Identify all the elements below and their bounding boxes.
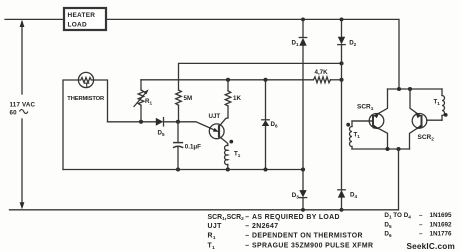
svg-text:–: – xyxy=(419,231,423,238)
wire rail y80 right of 4.7K to D2 line xyxy=(331,79,342,81)
node 1K top on rail y80 xyxy=(226,78,230,82)
transformer T1 secondary for SCR2 gate xyxy=(442,89,445,120)
wire emitter rail from thermistor to R1 node xyxy=(108,121,156,123)
svg-text:UJT: UJT xyxy=(209,113,221,120)
svg-text:1N1695: 1N1695 xyxy=(430,212,453,219)
wire SCR cathode rail y149 xyxy=(352,148,410,150)
diode D3 xyxy=(299,190,306,198)
resistor R1 variable xyxy=(134,80,149,122)
gate lead xyxy=(352,120,373,122)
node bottom wire to D3 xyxy=(301,208,305,212)
svg-text:T1: T1 xyxy=(208,243,216,250)
svg-text:–: – xyxy=(419,212,423,219)
svg-text:D6: D6 xyxy=(384,231,392,238)
text labels xyxy=(10,12,96,117)
heater load box xyxy=(64,8,106,30)
svg-text:–: – xyxy=(245,214,249,221)
node bottom wire to D4 xyxy=(340,208,344,212)
resistor 5M xyxy=(176,90,182,122)
svg-text:THERMISTOR: THERMISTOR xyxy=(67,96,105,102)
svg-text:T1: T1 xyxy=(234,151,241,159)
svg-text:D2: D2 xyxy=(349,40,356,48)
wire D1/D3 vertical line xyxy=(302,19,304,209)
wire SCR anode rail y89 xyxy=(388,88,443,90)
wire bottom AC line xyxy=(10,209,399,211)
diode D4 xyxy=(338,190,345,198)
svg-text:D5: D5 xyxy=(158,130,165,138)
node T1 primary phasing dot xyxy=(229,140,233,144)
SCR2 xyxy=(410,89,443,149)
node T1 primary bottom on rail xyxy=(226,167,230,171)
wire thermistor loop left side xyxy=(63,80,78,170)
node T1 secondary1 phasing dot xyxy=(346,123,350,127)
svg-text:–: – xyxy=(245,223,249,230)
svg-text:T1: T1 xyxy=(354,131,361,139)
node top wire to D1 line xyxy=(301,17,305,21)
gate lead xyxy=(427,119,442,121)
AC source double arrow 117 VAC xyxy=(20,20,25,210)
svg-text:AS REQUIRED BY LOAD: AS REQUIRED BY LOAD xyxy=(252,214,340,221)
node SCR2 anode on rail xyxy=(408,87,412,91)
svg-text:SeekIC.com: SeekIC.com xyxy=(407,242,455,251)
node cap bottom on rail y169 xyxy=(176,167,180,171)
UJT Q1 xyxy=(178,118,228,146)
capacitor 0.1uF xyxy=(174,122,183,170)
svg-text:SCR1,SCR2: SCR1,SCR2 xyxy=(208,214,245,221)
svg-text:–: – xyxy=(419,221,423,228)
svg-text:D5: D5 xyxy=(384,221,392,228)
diode D5 in emitter rail xyxy=(156,118,178,126)
svg-text:D1: D1 xyxy=(292,40,299,48)
transformer T1 primary winding xyxy=(225,145,228,169)
node SCR1 cathode on rail xyxy=(385,147,389,151)
resistor 4.7K inline xyxy=(314,77,331,83)
wire D2/D4 vertical line xyxy=(341,19,343,209)
svg-text:5M: 5M xyxy=(184,95,193,102)
node top wire to D2 line xyxy=(340,17,344,21)
node cap top / 5M bottom / emitter xyxy=(176,120,180,124)
SCR1 xyxy=(352,89,388,149)
svg-text:D1 TO D4: D1 TO D4 xyxy=(384,212,411,219)
svg-text:LOAD: LOAD xyxy=(68,22,87,29)
svg-text:SCR2: SCR2 xyxy=(418,134,435,143)
svg-text:R1: R1 xyxy=(145,98,152,106)
base2 to 1K xyxy=(219,118,228,127)
wire thermistor loop right side down to emitter rail xyxy=(94,80,108,122)
svg-text:–: – xyxy=(245,243,249,250)
node D6 top on rail y80 xyxy=(263,78,267,82)
svg-text:60: 60 xyxy=(10,109,18,116)
svg-text:HEATER: HEATER xyxy=(68,12,96,19)
svg-text:SPRAGUE 35ZM900 PULSE XFMR: SPRAGUE 35ZM900 PULSE XFMR xyxy=(252,243,373,250)
wire rail y80 from R1 top to 4.7K xyxy=(141,79,314,81)
emitter lead with arrow xyxy=(178,122,210,128)
wire rail y169 common xyxy=(63,169,303,171)
svg-text:1N1692: 1N1692 xyxy=(430,221,453,228)
diode D2 xyxy=(338,37,345,45)
node rail y63 joins D2 line xyxy=(339,61,343,65)
diode D1 xyxy=(299,38,306,46)
node R1 bottom xyxy=(139,120,143,124)
svg-text:117 VAC: 117 VAC xyxy=(10,101,36,108)
node bottom feed on cathode rail xyxy=(396,147,400,151)
svg-text:0.1μF: 0.1μF xyxy=(185,144,201,151)
svg-text:D6: D6 xyxy=(271,121,278,129)
svg-text:UJT: UJT xyxy=(208,223,223,230)
svg-text:DEPENDENT ON THERMISTOR: DEPENDENT ON THERMISTOR xyxy=(252,233,363,240)
svg-text:–: – xyxy=(245,233,249,240)
wire top AC line left of heater box xyxy=(5,18,63,20)
svg-text:SCR1: SCR1 xyxy=(357,104,374,113)
transformer T1 secondary for SCR1 gate xyxy=(350,121,373,149)
svg-text:T1: T1 xyxy=(434,99,441,107)
wire top AC line right of heater box xyxy=(107,19,400,89)
svg-text:D3: D3 xyxy=(292,192,299,200)
svg-text:1K: 1K xyxy=(233,95,241,102)
diode D6 xyxy=(262,80,269,170)
wire cathode rail to bottom AC line xyxy=(398,149,400,210)
base1 down to T1 xyxy=(219,136,228,145)
node rail y80 joins D2 line xyxy=(339,78,343,82)
svg-text:R1: R1 xyxy=(208,233,216,240)
node rail y169 joins D1/D3 line xyxy=(301,167,305,171)
node D6 bottom on rail y169 xyxy=(263,167,267,171)
svg-text:1N1776: 1N1776 xyxy=(430,231,453,238)
svg-text:4,7K: 4,7K xyxy=(315,69,329,76)
thermistor RT xyxy=(78,72,93,87)
notes table right column xyxy=(384,212,452,238)
resistor 1K xyxy=(225,80,231,118)
node top feed on anode rail xyxy=(397,87,401,91)
node T1 secondary2 phasing dot xyxy=(444,113,448,117)
notes table left column xyxy=(208,214,374,250)
svg-text:D4: D4 xyxy=(350,192,357,200)
svg-text:2N2647: 2N2647 xyxy=(252,223,278,230)
wire rail y63 from 5M top to D2 line xyxy=(179,63,342,90)
